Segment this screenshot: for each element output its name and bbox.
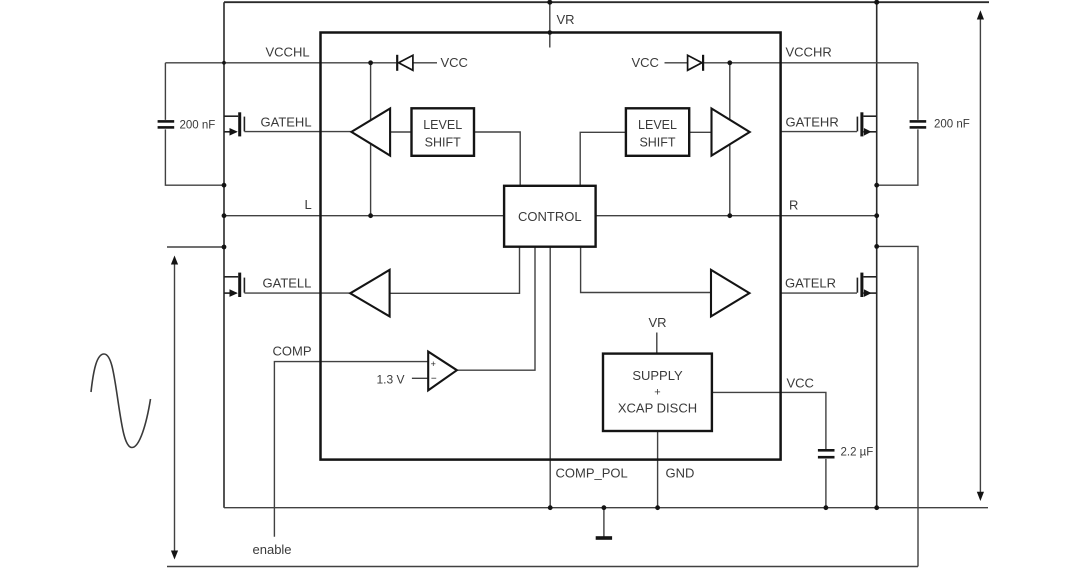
svg-text:VCCHR: VCCHR [786,45,832,60]
svg-text:2.2 µF: 2.2 µF [841,447,874,459]
svg-text:200 nF: 200 nF [180,120,216,132]
svg-text:VCCHL: VCCHL [266,45,310,60]
svg-text:L: L [305,197,312,212]
svg-text:R: R [789,198,798,213]
svg-text:COMP_POL: COMP_POL [556,466,628,481]
svg-text:SHIFT: SHIFT [425,136,461,150]
svg-text:GND: GND [666,466,695,481]
svg-text:SUPPLY: SUPPLY [632,368,683,383]
svg-text:1.3 V: 1.3 V [377,373,405,387]
svg-text:XCAP DISCH: XCAP DISCH [618,401,697,416]
svg-text:GATELL: GATELL [263,276,312,291]
svg-text:−: − [431,374,437,385]
svg-text:SHIFT: SHIFT [639,136,675,150]
svg-text:LEVEL: LEVEL [423,118,462,132]
svg-text:GATELR: GATELR [785,276,836,291]
svg-text:enable: enable [253,542,292,557]
svg-text:VCC: VCC [632,55,659,70]
svg-text:+: + [654,387,660,399]
svg-text:VR: VR [557,12,575,27]
svg-text:LEVEL: LEVEL [638,118,677,132]
svg-text:GATEHL: GATEHL [261,115,312,130]
svg-text:COMP: COMP [273,344,312,359]
svg-text:GATEHR: GATEHR [786,115,839,130]
svg-text:+: + [431,359,436,369]
svg-text:VCC: VCC [441,55,468,70]
svg-text:CONTROL: CONTROL [518,209,582,224]
svg-text:200 nF: 200 nF [934,119,970,131]
svg-text:VR: VR [649,315,667,330]
svg-text:VCC: VCC [787,376,814,391]
